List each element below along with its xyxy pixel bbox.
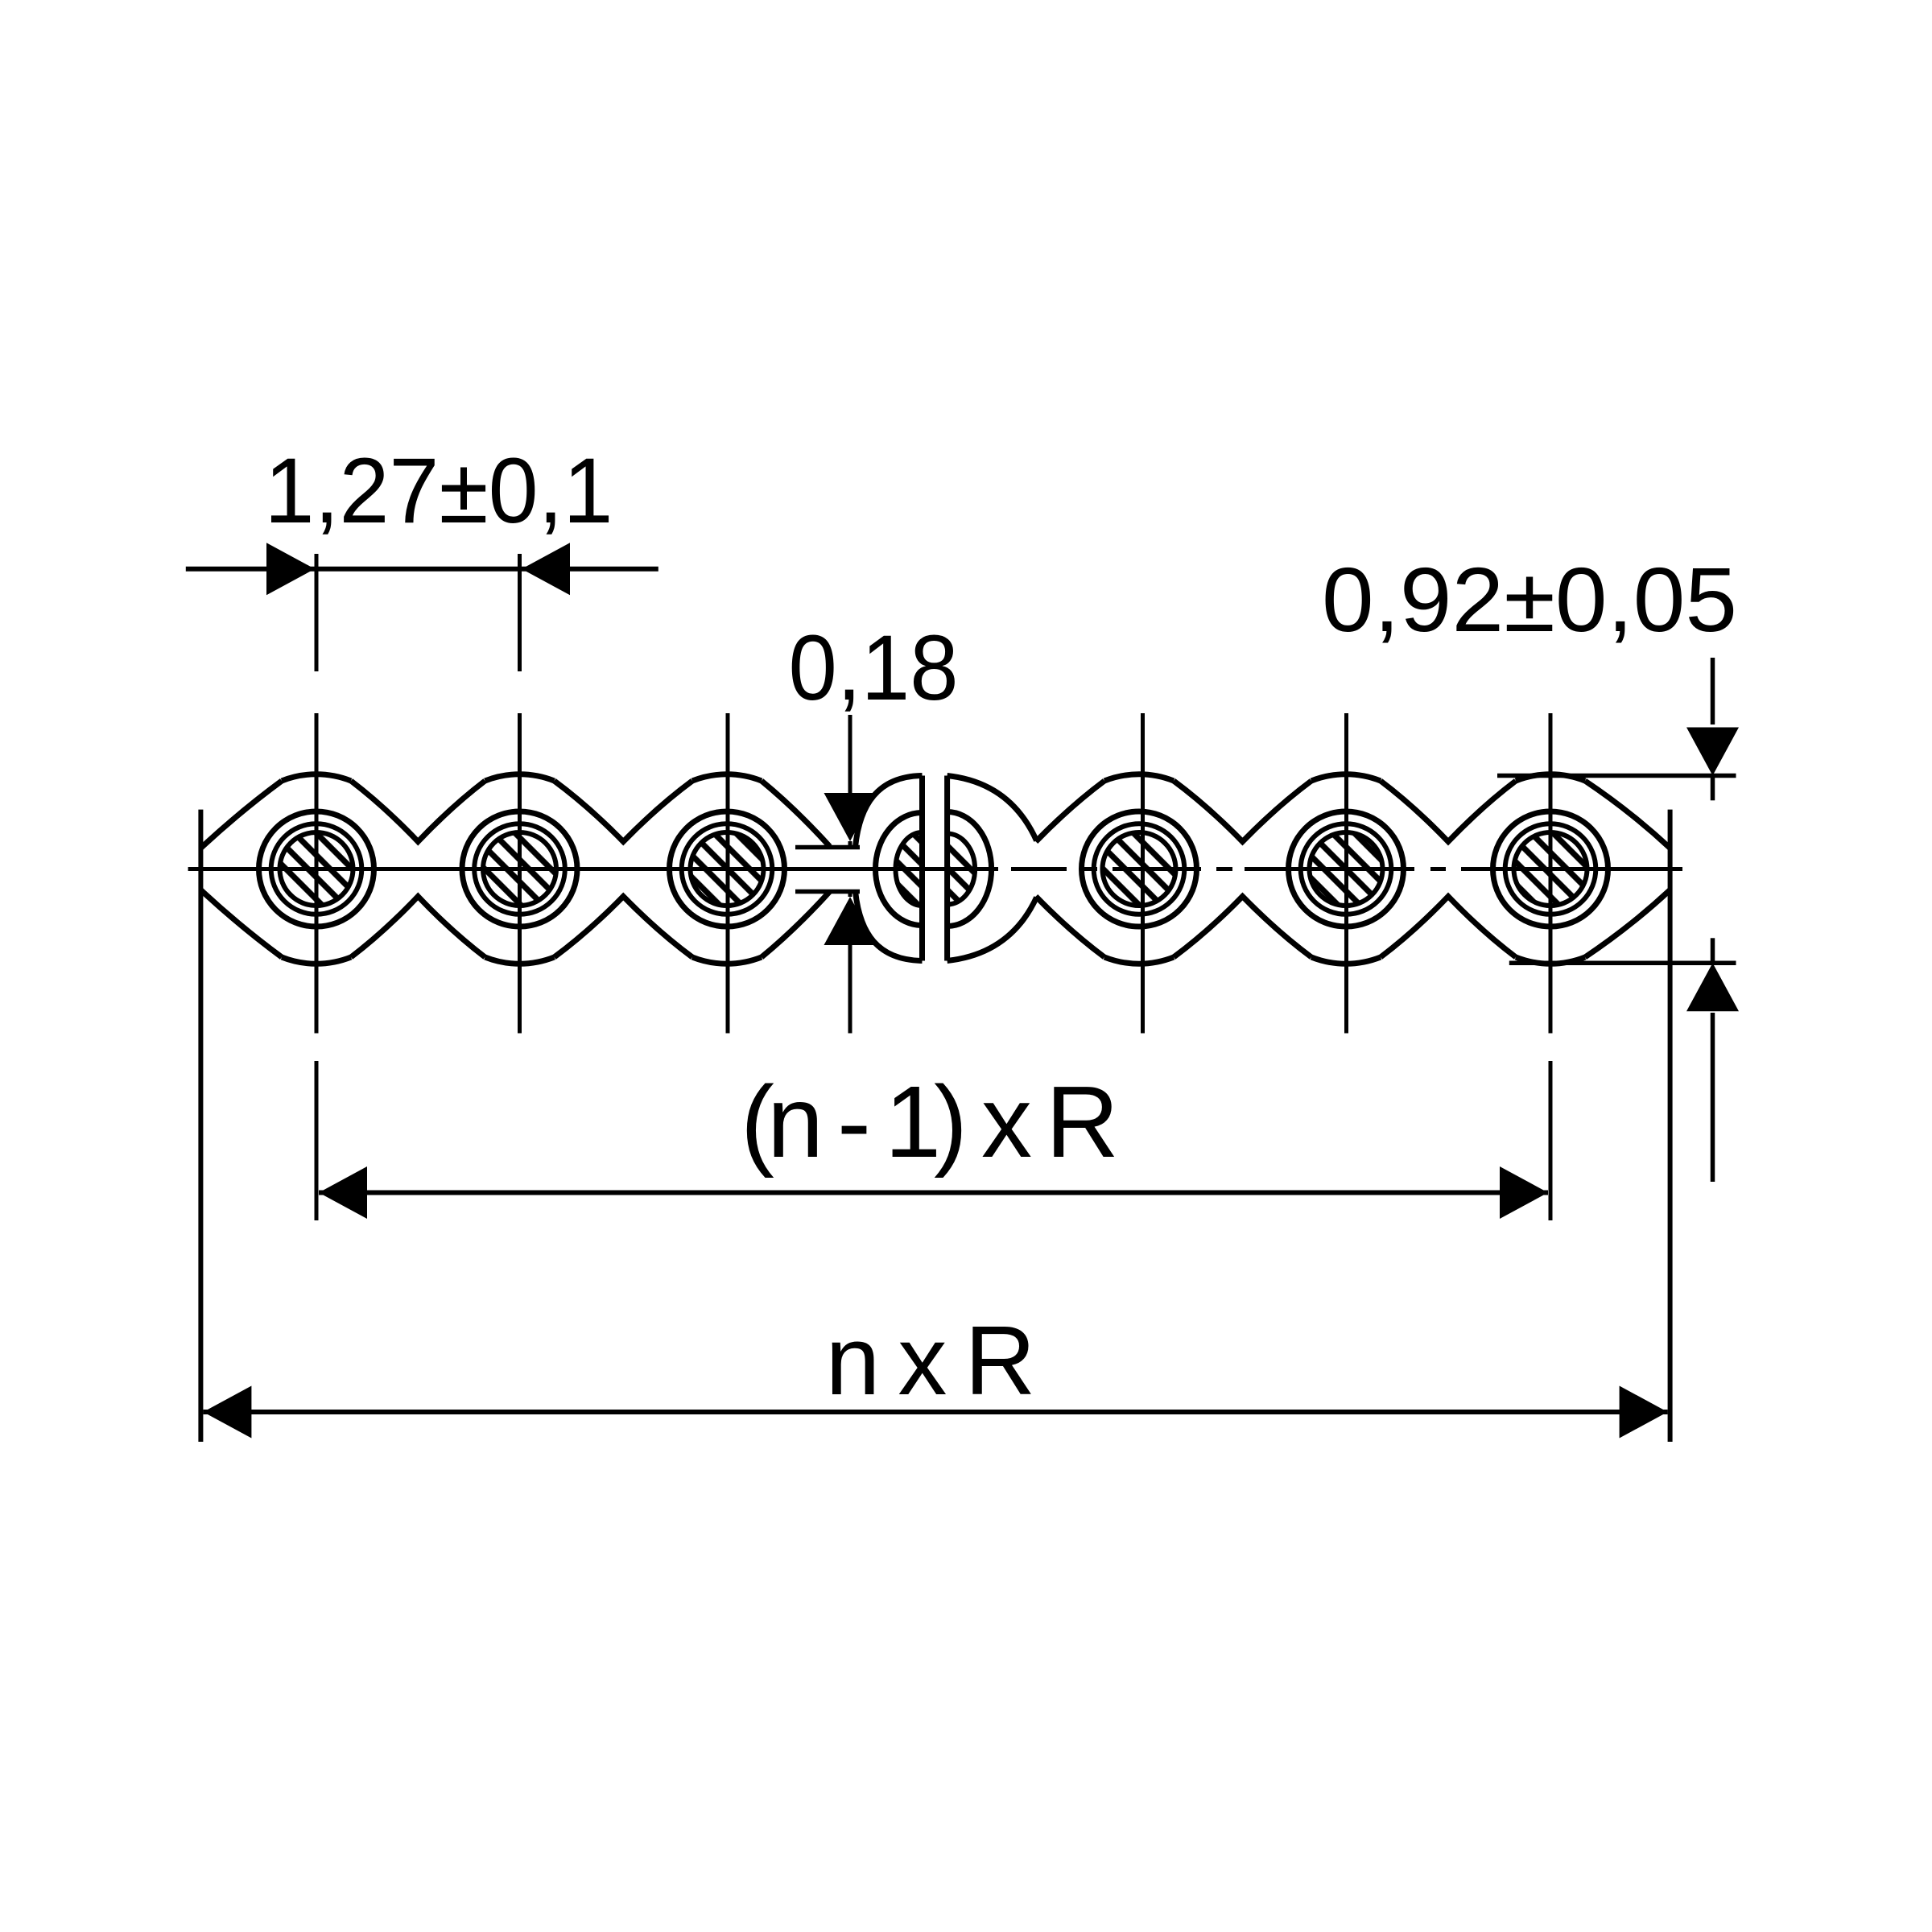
svg-text:n x R: n x R: [826, 1306, 1036, 1415]
svg-text:1,27±0,1: 1,27±0,1: [265, 440, 613, 543]
svg-text:(n - 1) x R: (n - 1) x R: [741, 1065, 1119, 1179]
svg-text:0,92±0,05: 0,92±0,05: [1322, 549, 1737, 650]
svg-text:0,18: 0,18: [789, 617, 959, 720]
